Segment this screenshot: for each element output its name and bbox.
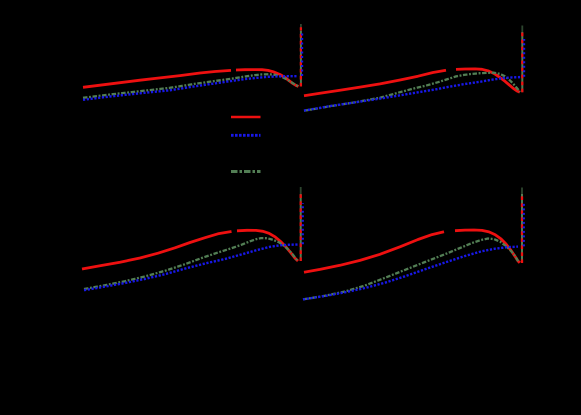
top-right panel: blue dotted curve	[304, 77, 521, 111]
top-left panel: red solid curve (segment after crossing, into dip)	[236, 70, 299, 87]
bottom-left panel: resonance spike, blue dotted component	[302, 203, 304, 244]
bottom-left panel: resonance spike, green component	[300, 194, 302, 261]
top-left panel: resonance spike, blue dotted component	[301, 33, 303, 76]
bottom-right panel: green dashed curve	[303, 239, 519, 300]
bottom-right panel: resonance spike, red dashed component	[521, 193, 523, 263]
legend: red solid sample line	[231, 116, 261, 119]
bottom-right panel: resonance spike, blue dotted component	[523, 204, 525, 247]
top-right panel: resonance spike, red dashed component	[521, 31, 523, 93]
bottom-left panel: green dashed curve	[84, 238, 297, 289]
top-left panel: red solid curve (segment before black-curve crossing)	[83, 70, 231, 87]
top-left panel: blue dotted curve	[83, 76, 298, 100]
top-left panel: green dashed curve	[83, 74, 299, 98]
top-left panel: resonance spike, red dashed component	[300, 27, 302, 86]
bottom-right panel: resonance spike, green component	[521, 194, 523, 263]
top-right panel: resonance spike, blue dotted component	[523, 39, 525, 77]
legend: blue dotted sample line	[231, 134, 261, 137]
top-right panel: red solid curve (segment before black-curve crossing)	[304, 70, 446, 96]
legend: green dashed sample line	[231, 170, 261, 173]
bottom-right panel: blue dotted curve	[303, 247, 518, 300]
bottom-left panel: red solid curve (segment before black-curve crossing)	[82, 232, 232, 270]
bottom-left panel: resonance spike, red dashed component	[300, 193, 302, 262]
top-right panel: resonance spike, green component	[521, 32, 523, 92]
top-right panel: green dashed curve	[304, 73, 520, 111]
top-left panel: resonance spike, green component	[300, 31, 302, 87]
bottom-left panel: red solid curve (segment after crossing, into dip)	[237, 230, 298, 261]
bottom-right panel: red solid curve (segment before black-curve crossing)	[304, 232, 444, 272]
bottom-right panel: red solid curve (segment after crossing, into dip)	[455, 230, 520, 263]
bottom-left panel: blue dotted curve	[84, 245, 299, 291]
top-right panel: red solid curve (segment after crossing, into dip)	[456, 69, 520, 92]
